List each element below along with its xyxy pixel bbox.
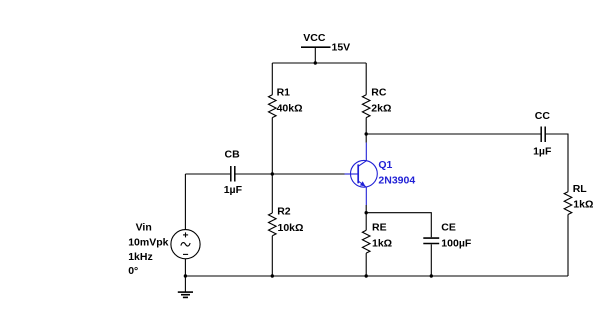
svg-text:1kΩ: 1kΩ <box>573 199 593 211</box>
transistor Q1 <box>345 143 378 205</box>
svg-text:R2: R2 <box>277 205 291 217</box>
svg-text:CE: CE <box>441 222 456 234</box>
junction collector node <box>365 132 368 135</box>
svg-text:0°: 0° <box>128 265 138 277</box>
svg-text:CB: CB <box>225 149 241 161</box>
wire RC bottom lead <box>365 118 367 134</box>
svg-text:CC: CC <box>535 110 551 122</box>
svg-text:2kΩ: 2kΩ <box>371 102 391 114</box>
wire RC top lead <box>365 63 367 95</box>
wire base rail left <box>185 173 230 175</box>
svg-text:Q1: Q1 <box>378 159 392 171</box>
capacitor CB <box>231 166 235 182</box>
svg-text:1kHz: 1kHz <box>128 251 153 263</box>
svg-text:1kΩ: 1kΩ <box>372 237 392 249</box>
resistor RC <box>362 95 370 118</box>
source Vin <box>171 230 200 259</box>
svg-text:15V: 15V <box>332 42 351 54</box>
wire R1 bottom lead <box>271 118 273 174</box>
junction base node <box>271 172 274 175</box>
svg-text:1µF: 1µF <box>533 146 552 158</box>
svg-text:RC: RC <box>371 86 387 98</box>
wire top rail <box>272 62 366 64</box>
junction top rail <box>314 61 317 64</box>
resistor RE <box>362 230 370 253</box>
junction R2 bottom <box>271 274 274 277</box>
junction emitter node <box>365 211 368 214</box>
wire collector stub <box>365 134 367 143</box>
wire R2 top lead <box>271 174 273 213</box>
wire bottom rail <box>185 275 568 277</box>
wire Vin bottom lead <box>184 259 186 276</box>
svg-text:10kΩ: 10kΩ <box>278 222 304 234</box>
svg-text:40kΩ: 40kΩ <box>277 102 303 114</box>
resistor R1 <box>269 95 277 118</box>
resistor R2 <box>269 213 277 236</box>
svg-text:100µF: 100µF <box>441 237 472 249</box>
wire R1 top lead <box>271 63 273 95</box>
svg-text:RL: RL <box>573 183 588 195</box>
wire CC to RL corner <box>546 134 568 192</box>
svg-text:1µF: 1µF <box>224 184 243 196</box>
resistor RL <box>564 192 572 215</box>
wire base rail right <box>235 173 344 175</box>
svg-text:VCC: VCC <box>303 32 326 44</box>
junction ground node <box>184 274 187 277</box>
capacitor CE <box>423 238 439 243</box>
capacitor CC <box>541 127 545 143</box>
wire RL bottom lead <box>567 215 569 277</box>
svg-text:Vin: Vin <box>136 222 152 234</box>
wire CE bottom lead <box>430 244 432 276</box>
wire emitter to CE <box>366 213 431 238</box>
svg-text:RE: RE <box>372 221 387 233</box>
ground <box>178 276 193 297</box>
wire output rail <box>366 133 540 135</box>
wire emitter stub <box>365 205 367 213</box>
wire Vin top lead <box>184 174 186 230</box>
svg-text:10mVpk: 10mVpk <box>128 236 168 248</box>
svg-text:2N3904: 2N3904 <box>378 175 415 187</box>
junction CE bottom <box>430 274 433 277</box>
wire RE bottom lead <box>365 253 367 276</box>
power VCC <box>301 47 331 63</box>
svg-text:R1: R1 <box>277 86 291 98</box>
wire R2 bottom lead <box>271 236 273 276</box>
junction RE bottom <box>365 274 368 277</box>
wire RE top lead <box>365 213 367 231</box>
